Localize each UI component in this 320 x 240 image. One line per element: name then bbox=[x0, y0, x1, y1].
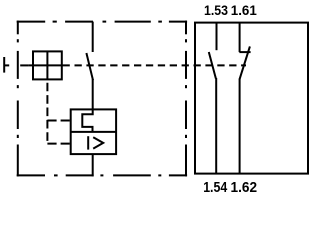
magnetic release symbol I> bbox=[88, 136, 103, 149]
breaker enclosure boundary top (dash-dot) bbox=[17, 21, 187, 23]
main contact blade bbox=[86, 53, 93, 80]
breaker enclosure boundary bottom (dash-dot) bbox=[17, 174, 187, 176]
contact 1.61 bottom terminal bbox=[239, 79, 241, 174]
contact 1.61 seat crossbar bbox=[239, 51, 250, 53]
svg-text:1.53: 1.53 bbox=[204, 2, 228, 18]
wire from release box to bottom boundary bbox=[92, 154, 94, 176]
mechanical linkage dashed line (left of actuator square) bbox=[4, 64, 9, 66]
mechanical linkage dashed line (square to aux contacts) bbox=[69, 64, 246, 66]
main contact top terminal wire bbox=[92, 22, 94, 52]
breaker enclosure boundary right (dash-dot) bbox=[185, 21, 187, 177]
contact 1.53 blade bbox=[209, 52, 216, 79]
manual operator anchor tick bbox=[3, 57, 5, 73]
thermal release detour wire bbox=[82, 110, 92, 132]
svg-text:1.62: 1.62 bbox=[231, 180, 258, 196]
contact 1.61 blade bbox=[240, 46, 250, 79]
svg-text:1.61: 1.61 bbox=[231, 2, 257, 18]
breaker enclosure boundary left (dash-dot) bbox=[17, 21, 19, 177]
trip linkage branch to thermal release bbox=[47, 120, 70, 122]
contact 1.53 top terminal bbox=[216, 23, 218, 51]
contact 1.53 bottom terminal bbox=[215, 78, 217, 174]
contact 1.61 top terminal bbox=[239, 23, 241, 52]
trip linkage vertical dashed line from square bbox=[46, 79, 48, 144]
actuator square with cross bbox=[33, 51, 62, 79]
svg-text:1.54: 1.54 bbox=[203, 180, 227, 196]
mechanical linkage solid line through actuator square bbox=[29, 64, 70, 66]
release box bbox=[71, 109, 116, 154]
trip linkage branch to magnetic release bbox=[47, 143, 70, 145]
wire from main contact to release box bbox=[92, 79, 94, 110]
aux contact block box bbox=[195, 23, 308, 174]
